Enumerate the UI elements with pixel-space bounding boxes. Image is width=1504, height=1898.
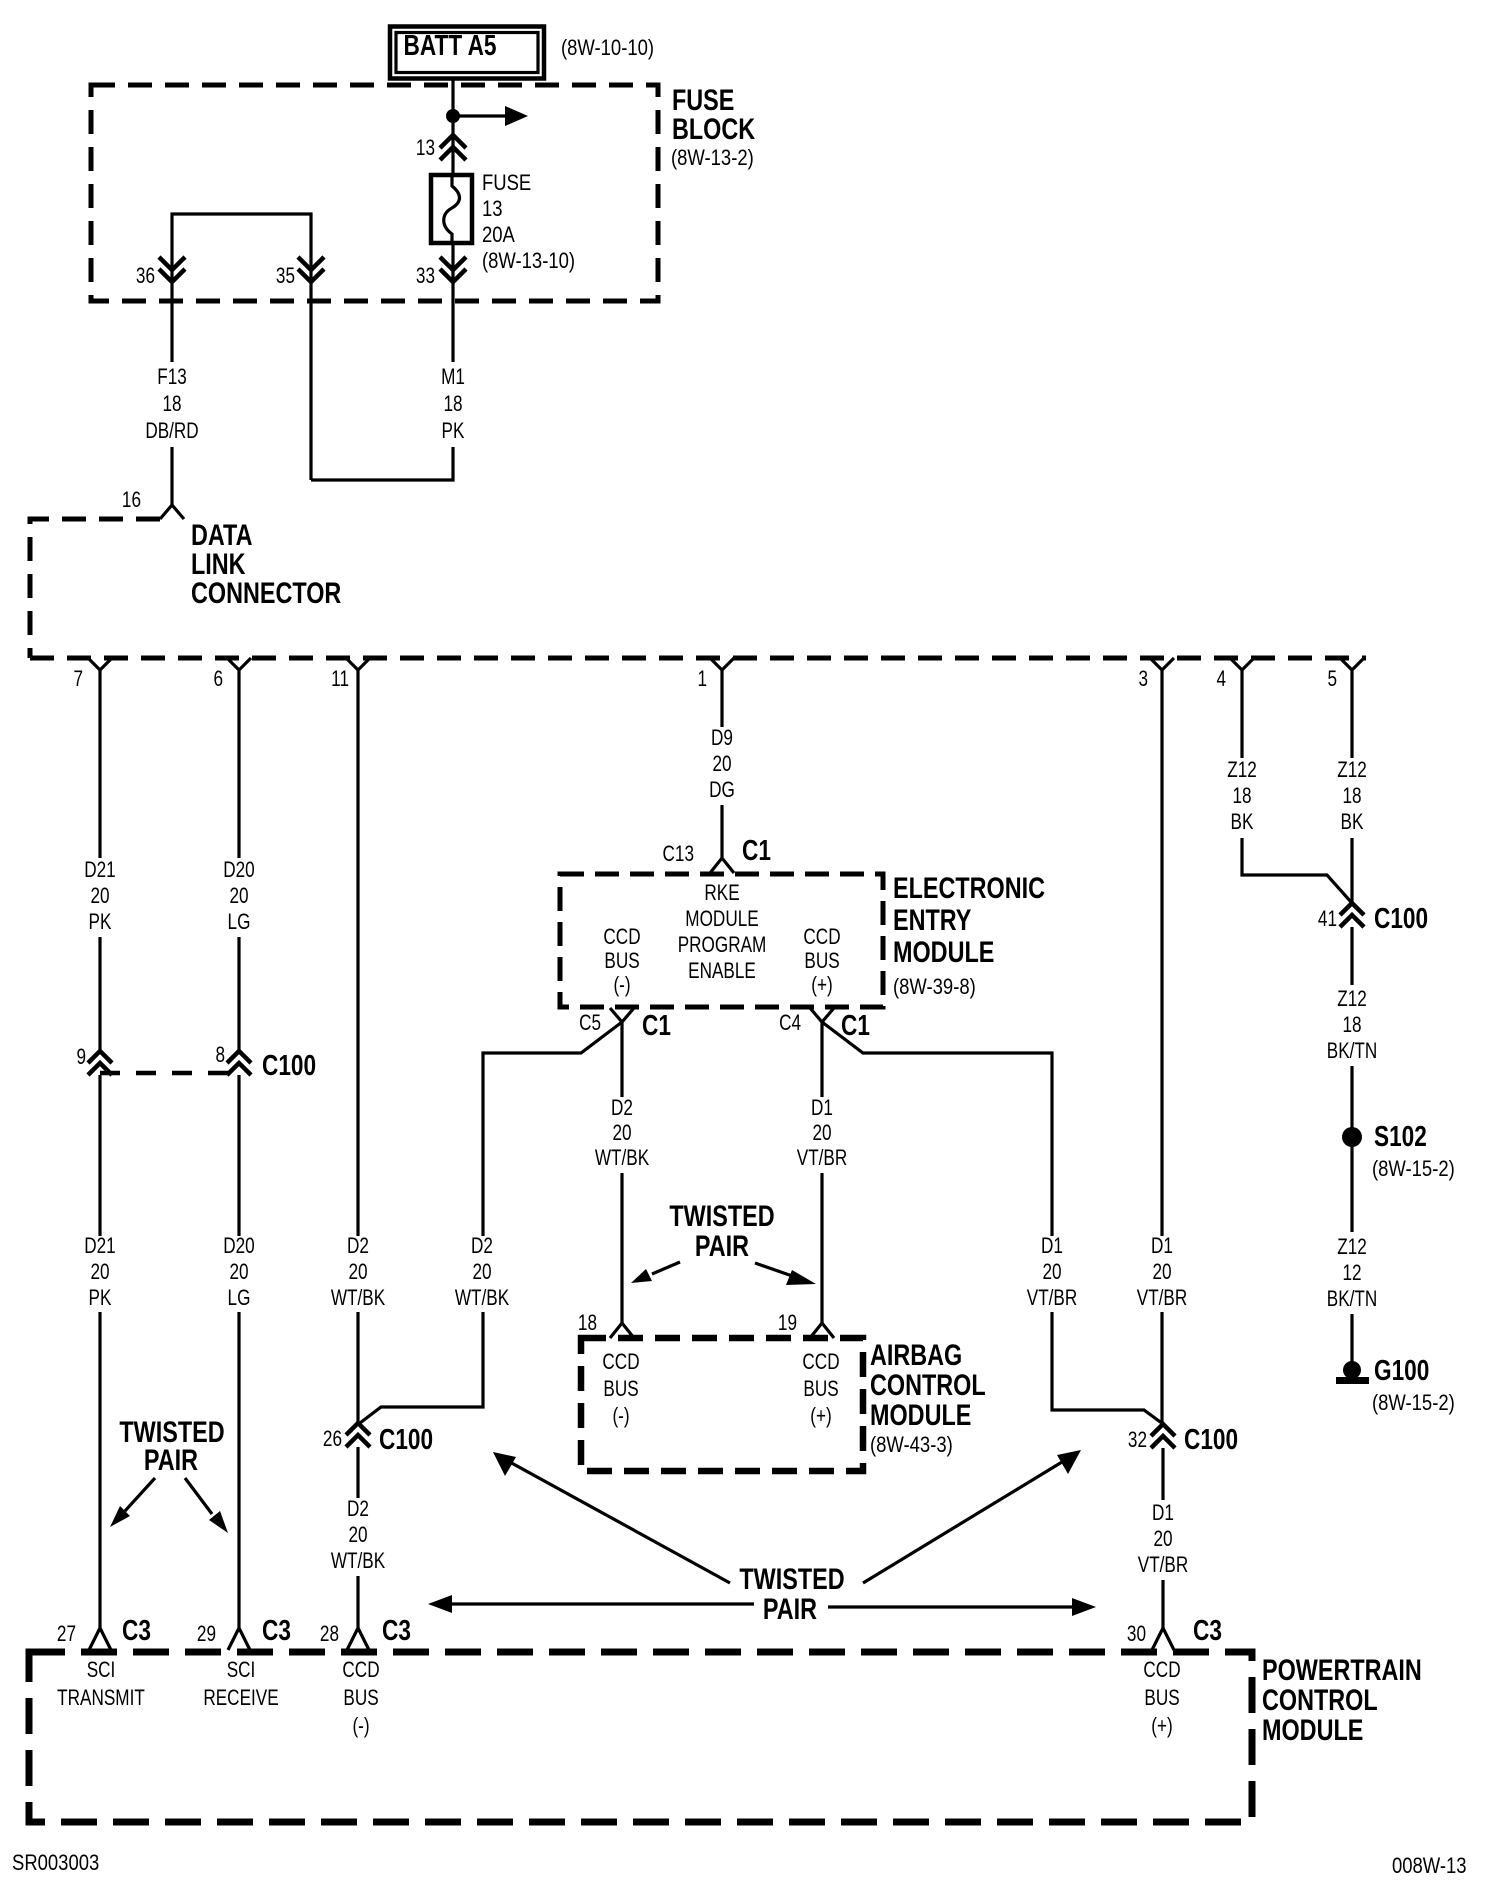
label FUSE BLOCK (8W-13-2) [671, 83, 756, 170]
svg-text:PK: PK [89, 1286, 112, 1311]
svg-text:9: 9 [76, 1045, 86, 1070]
wire to airbag pin 18 [620, 1173, 623, 1323]
EEM text CCD BUS (+) [803, 925, 840, 998]
data link connector dashed outline left [30, 519, 160, 658]
svg-text:11: 11 [331, 667, 349, 692]
fuse block dashed outline [91, 85, 658, 301]
svg-text:C3: C3 [1193, 1613, 1222, 1646]
svg-text:BK: BK [1341, 810, 1364, 835]
connector C100 chevron pin 41 [1340, 903, 1364, 927]
svg-text:SCI: SCI [227, 1658, 256, 1683]
connector fork PCM pin 29 [228, 1628, 250, 1650]
PCM text SCI TRANSMIT [57, 1658, 145, 1711]
svg-text:PAIR: PAIR [695, 1229, 749, 1262]
wire to PCM pin 28 [356, 1576, 359, 1628]
svg-text:18: 18 [578, 1311, 597, 1336]
connector fork airbag pin 19 [810, 1323, 834, 1338]
svg-text:(+): (+) [811, 973, 832, 998]
label ELECTRONIC ENTRY MODULE (8W-39-8) [893, 871, 1045, 999]
svg-text:5: 5 [1327, 667, 1337, 692]
wire DLC pin 4 down [1240, 670, 1243, 758]
svg-text:WT/BK: WT/BK [595, 1146, 649, 1171]
twisted pair arrow to C100 pin 32 [863, 1450, 1081, 1583]
svg-text:BUS: BUS [1144, 1686, 1179, 1711]
svg-text:33: 33 [416, 264, 435, 289]
connector fork PCM pin 28 [347, 1628, 369, 1650]
svg-text:BUS: BUS [604, 949, 639, 974]
label TWISTED PAIR bottom [739, 1562, 844, 1625]
svg-text:BUS: BUS [603, 1377, 638, 1402]
wire to ground G100 [1350, 1314, 1353, 1364]
svg-text:(8W-39-8): (8W-39-8) [893, 976, 976, 1000]
svg-text:D20: D20 [223, 1234, 254, 1259]
svg-text:20A: 20A [482, 224, 515, 248]
wire C5 down [620, 1022, 623, 1097]
svg-text:(8W-15-2): (8W-15-2) [1372, 1158, 1455, 1182]
svg-text:35: 35 [276, 264, 295, 289]
wire to splice S102 [1350, 1066, 1353, 1128]
svg-text:S102: S102 [1374, 1119, 1427, 1152]
svg-text:32: 32 [1128, 1428, 1147, 1453]
wire fuse to pin 33 [451, 243, 454, 362]
svg-text:D2: D2 [471, 1234, 493, 1259]
svg-text:C1: C1 [841, 1008, 870, 1041]
svg-text:27: 27 [57, 1622, 76, 1647]
svg-text:19: 19 [778, 1311, 797, 1336]
svg-text:13: 13 [416, 136, 435, 161]
label AIRBAG CONTROL MODULE (8W-43-3) [870, 1338, 986, 1457]
svg-text:D1: D1 [1151, 1234, 1173, 1259]
connector fork DLC pin 1 [710, 658, 734, 670]
wire label D2 20 WT/BK column 11 [331, 1234, 385, 1311]
svg-text:(+): (+) [1151, 1714, 1172, 1739]
svg-text:(-): (-) [612, 1404, 629, 1429]
wire below S102 [1350, 1147, 1353, 1232]
powertrain control module dashed outline [29, 1652, 1252, 1822]
svg-text:RKE: RKE [704, 881, 739, 906]
wire label F13 18 DB/RD [145, 365, 198, 444]
wire to airbag pin 19 [820, 1173, 823, 1323]
connector fork DLC pin 7 [88, 658, 112, 670]
svg-text:CCD: CCD [603, 925, 640, 950]
svg-text:M1: M1 [441, 365, 465, 390]
svg-text:MODULE: MODULE [1262, 1713, 1363, 1746]
svg-text:20: 20 [348, 1523, 367, 1548]
wire left branch to C100 pin 26 [360, 1312, 483, 1423]
svg-text:13: 13 [482, 198, 503, 222]
wire pin 11 down [356, 670, 359, 1236]
svg-text:SR003003: SR003003 [12, 1852, 99, 1876]
svg-text:(8W-15-2): (8W-15-2) [1372, 1392, 1455, 1416]
svg-text:BK: BK [1231, 810, 1254, 835]
svg-text:6: 6 [213, 667, 223, 692]
svg-text:ENABLE: ENABLE [688, 959, 756, 984]
battery feed box BATT A5 [390, 27, 544, 79]
svg-text:18: 18 [443, 392, 462, 417]
svg-text:CCD: CCD [802, 1350, 839, 1375]
wire pin 6 to C100 pin 8 [237, 937, 240, 1052]
svg-text:D21: D21 [84, 858, 115, 883]
svg-text:D2: D2 [347, 1497, 369, 1522]
svg-text:WT/BK: WT/BK [331, 1549, 385, 1574]
svg-text:CCD: CCD [1143, 1658, 1180, 1683]
svg-text:VT/BR: VT/BR [1137, 1286, 1188, 1311]
connector chevron pin 13 [440, 135, 466, 160]
svg-text:BUS: BUS [803, 1377, 838, 1402]
svg-text:26: 26 [323, 1427, 342, 1452]
svg-text:C1: C1 [642, 1008, 671, 1041]
wire label D1 20 VT/BR lower [1138, 1501, 1189, 1578]
svg-text:20: 20 [1042, 1260, 1061, 1285]
svg-text:20: 20 [229, 1260, 248, 1285]
connector fork pin C13 [710, 858, 734, 873]
wire M1 down and across to pin 35 [311, 447, 453, 480]
wire below C100 pin 32 [1161, 1448, 1164, 1500]
node junction dot [446, 109, 460, 123]
svg-text:Z12: Z12 [1337, 1235, 1367, 1260]
svg-text:C100: C100 [1374, 901, 1428, 934]
connector chevron pin 36 [159, 257, 185, 282]
svg-text:ENTRY: ENTRY [893, 903, 971, 936]
svg-text:18: 18 [1342, 1013, 1361, 1038]
wire below C100 pin 26 [356, 1447, 359, 1498]
wire DLC pin 5 down [1350, 670, 1353, 758]
svg-text:4: 4 [1216, 667, 1226, 692]
svg-text:MODULE: MODULE [685, 907, 758, 932]
svg-text:ELECTRONIC: ELECTRONIC [893, 871, 1045, 904]
svg-text:CCD: CCD [803, 925, 840, 950]
svg-text:MODULE: MODULE [870, 1398, 971, 1431]
svg-text:D2: D2 [611, 1096, 633, 1121]
svg-text:C13: C13 [663, 842, 694, 867]
connector fork DLC pin 5 [1340, 658, 1364, 670]
airbag control module dashed outline [581, 1338, 863, 1471]
PCM text CCD BUS (-) [342, 1658, 379, 1739]
connector C100 chevron pin 26 [346, 1423, 370, 1447]
wire label Z12 18 BK/TN [1327, 987, 1378, 1064]
twisted pair arrow left horizontal [428, 1595, 754, 1613]
label DATA LINK CONNECTOR [191, 518, 341, 609]
data link connector dashed outline bottom [30, 656, 1366, 661]
svg-text:DB/RD: DB/RD [145, 419, 198, 444]
svg-text:Z12: Z12 [1337, 987, 1367, 1012]
connector fork DLC pin 3 [1150, 658, 1174, 670]
svg-text:(8W-43-3): (8W-43-3) [870, 1434, 953, 1458]
wire below C100 pin 41 [1350, 927, 1353, 985]
svg-text:29: 29 [197, 1622, 216, 1647]
svg-text:AIRBAG: AIRBAG [870, 1338, 962, 1371]
svg-text:WT/BK: WT/BK [455, 1286, 509, 1311]
wire pin 4 joining C100 pin 41 [1242, 838, 1351, 902]
label TWISTED PAIR middle [669, 1199, 774, 1262]
twisted pair arrow to wire D21 [110, 1478, 155, 1527]
svg-text:Z12: Z12 [1337, 758, 1367, 783]
svg-text:D1: D1 [1041, 1234, 1063, 1259]
svg-text:C100: C100 [262, 1048, 316, 1081]
svg-text:MODULE: MODULE [893, 935, 994, 968]
wire C4 branch to right column [822, 1022, 1052, 1236]
svg-text:D9: D9 [711, 726, 733, 751]
svg-text:BUS: BUS [343, 1686, 378, 1711]
splice S102 [1342, 1127, 1362, 1147]
connector fork airbag pin 18 [610, 1323, 634, 1338]
svg-text:20: 20 [612, 1121, 631, 1146]
svg-text:7: 7 [73, 667, 83, 692]
svg-text:VT/BR: VT/BR [1138, 1553, 1189, 1578]
wire DLC pin 3 down [1160, 670, 1163, 1236]
airbag text CCD BUS (-) [602, 1350, 639, 1429]
connector chevron pin 35 [298, 257, 324, 282]
svg-text:C3: C3 [122, 1613, 151, 1646]
connector fork DLC pin 4 [1230, 658, 1254, 670]
svg-text:F13: F13 [157, 365, 187, 390]
wire to C100 pin 32 [1160, 1312, 1163, 1424]
svg-text:CONTROL: CONTROL [1262, 1683, 1378, 1716]
wire label D21 20 PK lower [84, 1234, 115, 1311]
connector fork pin C4 [810, 1008, 834, 1022]
wire pin 6 upper [237, 670, 240, 858]
wire label D2 20 WT/BK lower [331, 1497, 385, 1574]
svg-text:D2: D2 [347, 1234, 369, 1259]
svg-text:G100: G100 [1374, 1353, 1429, 1386]
airbag text CCD BUS (+) [802, 1350, 839, 1429]
connector fork pin 16 [160, 505, 184, 519]
wire link pins 36 to 35 inside fuse block [172, 214, 311, 480]
svg-text:C1: C1 [742, 833, 771, 866]
wire label M1 18 PK [441, 365, 465, 444]
svg-text:C3: C3 [262, 1613, 291, 1646]
svg-text:TWISTED: TWISTED [739, 1562, 844, 1595]
svg-text:(8W-13-10): (8W-13-10) [482, 250, 575, 274]
wire to EEM pin C13 [720, 805, 723, 858]
connector fork DLC pin 6 [227, 658, 251, 670]
wire label Z12 12 BK/TN [1327, 1235, 1378, 1312]
twisted pair arrow to C100 pin 26 [493, 1452, 730, 1583]
svg-text:20: 20 [90, 1260, 109, 1285]
svg-text:D20: D20 [223, 858, 254, 883]
svg-text:20: 20 [812, 1121, 831, 1146]
EEM text RKE MODULE PROGRAM ENABLE [678, 881, 767, 984]
fuse F13 symbol [431, 175, 472, 243]
svg-text:36: 36 [136, 264, 155, 289]
svg-text:20: 20 [472, 1260, 491, 1285]
svg-text:PK: PK [89, 910, 112, 935]
svg-text:CONTROL: CONTROL [870, 1368, 986, 1401]
wire label D20 20 LG upper [223, 858, 254, 935]
wire label D2 20 WT/BK at C5 [595, 1096, 649, 1171]
svg-text:BK/TN: BK/TN [1327, 1039, 1378, 1064]
wire to PCM pin 30 [1161, 1580, 1164, 1628]
svg-text:FUSE: FUSE [482, 172, 531, 196]
svg-text:C3: C3 [382, 1613, 411, 1646]
wire from BATT A5 down to fuse [451, 77, 454, 176]
svg-text:WT/BK: WT/BK [331, 1286, 385, 1311]
svg-text:BK/TN: BK/TN [1327, 1287, 1378, 1312]
wire label D1 20 VT/BR column 3 [1137, 1234, 1188, 1311]
wire C4 down [820, 1022, 823, 1097]
label POWERTRAIN CONTROL MODULE [1262, 1653, 1422, 1746]
svg-text:DG: DG [709, 778, 735, 803]
wire label Z12 18 BK pin 5 [1337, 758, 1367, 835]
svg-text:18: 18 [1342, 784, 1361, 809]
PCM text SCI RECEIVE [203, 1658, 278, 1711]
dashed connector link C100 pins 9-8 [100, 1071, 239, 1076]
svg-text:SCI: SCI [87, 1658, 116, 1683]
wire below C100 pin 9 [98, 1075, 101, 1236]
svg-text:POWERTRAIN: POWERTRAIN [1262, 1653, 1422, 1686]
wire pin 7 upper [98, 670, 101, 858]
svg-text:41: 41 [1318, 907, 1337, 932]
connector C100 chevron pin 32 [1151, 1424, 1175, 1448]
svg-text:CCD: CCD [602, 1350, 639, 1375]
wire label Z12 18 BK pin 4 [1227, 758, 1257, 835]
svg-text:28: 28 [320, 1622, 339, 1647]
svg-text:18: 18 [1232, 784, 1251, 809]
svg-text:20: 20 [229, 884, 248, 909]
wire to PCM pin 29 [237, 1312, 240, 1628]
svg-text:20: 20 [1152, 1260, 1171, 1285]
label FUSE 13 20A (8W-13-10) [482, 172, 575, 274]
connector C100 chevron pin 9 [88, 1051, 112, 1075]
PCM text CCD BUS (+) [1143, 1658, 1180, 1739]
wire to C100 pin 26 [356, 1312, 359, 1424]
wire label D20 20 LG lower [223, 1234, 254, 1311]
twisted pair arrow to wire D20 [185, 1478, 228, 1533]
svg-text:(-): (-) [613, 973, 630, 998]
svg-text:CCD: CCD [342, 1658, 379, 1683]
svg-text:LG: LG [228, 1286, 251, 1311]
svg-text:D21: D21 [84, 1234, 115, 1259]
svg-text:D1: D1 [1152, 1501, 1174, 1526]
svg-text:(8W-10-10): (8W-10-10) [561, 37, 654, 61]
svg-text:20: 20 [712, 752, 731, 777]
svg-text:TWISTED: TWISTED [669, 1199, 774, 1232]
svg-text:8: 8 [215, 1043, 225, 1068]
twisted pair arrow left [631, 1262, 680, 1283]
svg-text:RECEIVE: RECEIVE [203, 1686, 278, 1711]
wire label D9 20 DG [709, 726, 735, 803]
svg-text:18: 18 [162, 392, 181, 417]
svg-text:(8W-13-2): (8W-13-2) [671, 147, 754, 171]
wire pin 5 to C100 pin 41 [1350, 838, 1353, 904]
connector fork PCM pin 27 [89, 1628, 111, 1650]
svg-text:C4: C4 [779, 1011, 801, 1036]
svg-text:20: 20 [90, 884, 109, 909]
svg-text:C100: C100 [1184, 1422, 1238, 1455]
svg-text:PAIR: PAIR [763, 1592, 817, 1625]
svg-text:TRANSMIT: TRANSMIT [57, 1686, 145, 1711]
svg-text:C100: C100 [379, 1422, 433, 1455]
arrow to other circuits [453, 106, 528, 126]
svg-text:(-): (-) [352, 1714, 369, 1739]
label TWISTED PAIR left [119, 1415, 224, 1476]
wire label D2 20 WT/BK left branch [455, 1234, 509, 1311]
svg-text:BLOCK: BLOCK [672, 112, 756, 145]
svg-text:Z12: Z12 [1227, 758, 1257, 783]
twisted pair arrow right [755, 1263, 816, 1285]
wire label D1 20 VT/BR right branch [1027, 1234, 1078, 1311]
twisted pair arrow right horizontal [828, 1598, 1096, 1616]
electronic entry module dashed outline [560, 874, 883, 1007]
wire label D21 20 PK upper [84, 858, 115, 935]
svg-text:20: 20 [1153, 1527, 1172, 1552]
EEM text CCD BUS (-) [603, 925, 640, 998]
wire C5 branch to left column [483, 1022, 622, 1236]
svg-text:LG: LG [228, 910, 251, 935]
svg-text:12: 12 [1342, 1261, 1361, 1286]
svg-text:20: 20 [348, 1260, 367, 1285]
svg-text:VT/BR: VT/BR [1027, 1286, 1078, 1311]
wire pin 7 to C100 pin 9 [98, 937, 101, 1052]
wire F13 down to DLC pin 16 [170, 447, 173, 506]
wire to PCM pin 27 [98, 1312, 101, 1628]
svg-text:D1: D1 [811, 1096, 833, 1121]
svg-text:16: 16 [122, 488, 141, 513]
svg-text:PAIR: PAIR [144, 1443, 198, 1476]
wire label D1 20 VT/BR at C4 [797, 1096, 848, 1171]
svg-text:008W-13: 008W-13 [1392, 1855, 1467, 1879]
svg-text:PK: PK [442, 419, 465, 444]
ground G100 [1336, 1361, 1369, 1384]
svg-text:CONNECTOR: CONNECTOR [191, 576, 341, 609]
svg-text:C5: C5 [579, 1011, 601, 1036]
svg-text:BUS: BUS [804, 949, 839, 974]
svg-text:30: 30 [1127, 1622, 1146, 1647]
connector C100 chevron pin 8 [227, 1051, 251, 1075]
svg-text:(+): (+) [810, 1404, 831, 1429]
connector chevron pin 33 [440, 257, 466, 282]
wire DLC pin 1 down [720, 670, 723, 727]
connector fork PCM pin 30 [1152, 1628, 1174, 1650]
svg-text:VT/BR: VT/BR [797, 1146, 848, 1171]
wire right branch to C100 pin 32 [1052, 1312, 1163, 1424]
svg-text:BATT A5: BATT A5 [404, 28, 497, 61]
connector fork DLC pin 11 [346, 658, 370, 670]
wire below C100 pin 8 [237, 1075, 240, 1236]
svg-text:1: 1 [697, 667, 707, 692]
svg-text:3: 3 [1138, 667, 1148, 692]
svg-text:PROGRAM: PROGRAM [678, 933, 767, 958]
connector fork pin C5 [610, 1008, 634, 1022]
